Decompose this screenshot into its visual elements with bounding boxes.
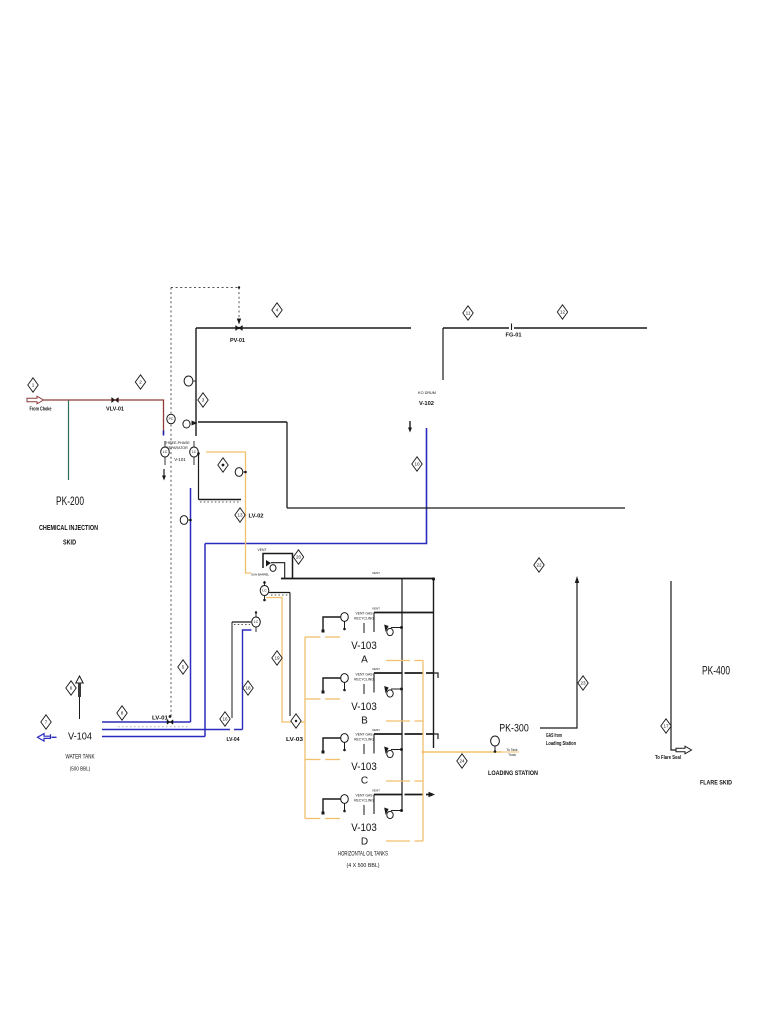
tank V-103 A vent line [374, 612, 434, 614]
tank D left gauge assembly [322, 795, 349, 815]
flag 23 [578, 676, 588, 690]
signal line (dashed) vertical left to PC [170, 288, 172, 414]
instrument bubble to orange [235, 468, 247, 477]
tank C left gauge assembly [322, 734, 349, 754]
svg-text:11: 11 [466, 311, 471, 316]
tank vent riser mid [401, 579, 403, 811]
svg-text:8: 8 [121, 711, 124, 716]
svg-text:VENT GAS: VENT GAS [355, 733, 373, 737]
tank D left orange dashes [305, 818, 321, 820]
off-page connector From Choke arrow [27, 396, 44, 404]
chemical injection line (green) [68, 401, 70, 480]
signal LC to LV-03 (hatched) [269, 593, 290, 717]
svg-text:PK-200: PK-200 [56, 494, 84, 508]
oil outlet horizontal (hatched) [199, 500, 242, 503]
instrument bubble LC gun barrel [260, 581, 269, 601]
instrument bubble to water line [180, 516, 192, 525]
svg-text:V-104: V-104 [68, 731, 92, 743]
tank A dip tube tick [363, 623, 365, 633]
svg-text:WATER TANK: WATER TANK [66, 755, 95, 761]
fuel gas line right segment [514, 327, 647, 329]
svg-text:LV-03: LV-03 [286, 737, 303, 743]
tank outlet manifold (orange) [422, 661, 424, 842]
blue riser from LC (line2) [243, 630, 252, 730]
condensate line V-102 (blue) [205, 428, 427, 544]
svg-text:A: A [361, 655, 368, 666]
orange control to LV-03 [266, 598, 291, 723]
svg-text:PK-300: PK-300 [499, 723, 529, 735]
flag 2 [135, 375, 145, 389]
svg-text:Truck: Truck [508, 753, 516, 757]
flag 19 [272, 651, 282, 665]
tank B pump glyph [384, 686, 403, 697]
svg-text:VENT GAS: VENT GAS [355, 612, 373, 616]
gas line from separator top [196, 327, 411, 329]
svg-text:V-103: V-103 [351, 761, 377, 773]
flag 20 [293, 550, 303, 564]
svg-text:From Choke: From Choke [30, 407, 52, 413]
svg-text:RECYCLING: RECYCLING [354, 799, 374, 803]
svg-text:SKID: SKID [63, 538, 76, 547]
faded orange continuation [502, 751, 519, 753]
svg-text:RECYCLING: RECYCLING [354, 617, 374, 621]
svg-text:(500 BBL): (500 BBL) [70, 767, 91, 773]
separator drain arrow [162, 469, 166, 481]
oil outlet drop [198, 452, 200, 500]
tank C right orange dashes [386, 780, 410, 782]
gas outlet drop [286, 422, 288, 508]
svg-text:V-102: V-102 [419, 401, 434, 407]
svg-text:1: 1 [32, 383, 35, 388]
svg-text:VENT: VENT [372, 607, 380, 611]
flag 18 [243, 681, 253, 695]
instrument bubble PC on dashed line [167, 414, 175, 424]
separator inlet line [198, 421, 287, 423]
gun barrel body [263, 554, 293, 579]
valve flag LV-04 [220, 712, 230, 726]
line end marker (blue tick) [163, 431, 165, 436]
tank B left orange dashes [305, 698, 321, 700]
svg-text:LV-02: LV-02 [249, 514, 264, 520]
svg-text:THREE-PHASE: THREE-PHASE [164, 441, 190, 445]
gun barrel internal circle [270, 565, 276, 572]
svg-text:2: 2 [139, 380, 142, 385]
instrument bubble loading [491, 736, 500, 753]
svg-text:7: 7 [45, 720, 48, 725]
drop to V-102 [442, 328, 444, 380]
gas return line [540, 581, 577, 728]
orange control line top [206, 452, 251, 573]
valve flag LV-02 [235, 508, 245, 522]
signal to LV-04 [231, 622, 233, 718]
svg-text:PV-01: PV-01 [230, 338, 245, 344]
tank C left orange dashes [305, 759, 321, 761]
svg-text:VENT: VENT [372, 789, 380, 793]
svg-text:20: 20 [296, 555, 302, 560]
svg-text:13: 13 [237, 513, 243, 518]
instrument bubble with arrow [183, 420, 198, 428]
flag 24 [457, 754, 467, 768]
svg-text:C: C [361, 776, 368, 787]
flag bullet [218, 458, 228, 472]
flag 8 [117, 706, 127, 720]
gun barrel internal line [271, 563, 285, 579]
svg-text:VENT GAS: VENT GAS [355, 673, 373, 677]
svg-text:18: 18 [245, 686, 251, 691]
tank C pump glyph [384, 747, 403, 758]
flag 3 [198, 393, 208, 407]
oil to loading station (orange) [423, 751, 502, 753]
svg-text:RECYCLING: RECYCLING [354, 678, 374, 682]
water inlet line 1 (blue) [102, 721, 191, 723]
tank A nozzle stub [373, 613, 375, 633]
instrument bubble LC tank B [252, 611, 261, 632]
svg-text:V-103: V-103 [351, 822, 377, 834]
tank V-103 B vent line [374, 672, 402, 674]
valve VLV-01 [112, 397, 119, 402]
svg-text:SEPARATOR: SEPARATOR [166, 446, 188, 450]
tank D dip tube tick [363, 805, 365, 815]
svg-text:23: 23 [580, 681, 586, 686]
gas return arrowhead [575, 576, 579, 583]
tank V-103 C vent line [374, 733, 402, 735]
svg-text:LC: LC [254, 620, 259, 624]
svg-text:GAS from: GAS from [546, 733, 562, 739]
flag 11 [463, 306, 473, 320]
svg-text:22: 22 [536, 563, 542, 568]
instrument bubble LC left [161, 441, 170, 465]
water inlet line 3 (blue) [102, 736, 205, 738]
water outlet (blue) [190, 488, 192, 722]
svg-text:4: 4 [276, 308, 279, 313]
svg-text:PK-400: PK-400 [702, 664, 730, 678]
junction dot dashed corner [238, 286, 240, 288]
svg-text:VENT: VENT [257, 548, 266, 552]
gas header to flare [287, 507, 625, 509]
valve LV-01 [167, 720, 173, 725]
svg-text:To Flare Seal: To Flare Seal [655, 755, 682, 761]
instrument FG-01 tick [511, 324, 513, 331]
svg-text:To Tank: To Tank [507, 748, 518, 752]
svg-text:LV-01: LV-01 [152, 716, 168, 722]
flag 10 [412, 457, 422, 471]
svg-text:12: 12 [560, 310, 566, 315]
tank B dip tube tick [363, 684, 365, 694]
svg-text:3: 3 [202, 398, 205, 403]
svg-text:17: 17 [663, 724, 669, 729]
orange into tank manifold [301, 721, 305, 723]
svg-text:LC: LC [163, 450, 168, 454]
svg-text:HORIZONTAL OIL TANKS: HORIZONTAL OIL TANKS [338, 851, 388, 858]
svg-text:FLARE SKID: FLARE SKID [700, 780, 732, 787]
svg-text:V-103: V-103 [351, 640, 377, 652]
crossing jog [434, 673, 439, 678]
tank C nozzle stub [373, 734, 375, 754]
actuator arrow into PV-01 [237, 319, 241, 325]
svg-text:6: 6 [70, 686, 73, 691]
tank B right orange dashes [386, 720, 410, 722]
svg-text:VENT: VENT [372, 667, 380, 671]
tank V-103 D vent line [374, 794, 402, 796]
signal dashed PC down to LV-01 [170, 425, 172, 717]
valve PV-01 [236, 325, 243, 330]
riser from separator [195, 328, 197, 436]
svg-text:(4 X 500 BBL): (4 X 500 BBL) [347, 863, 380, 869]
svg-text:LC: LC [192, 450, 197, 454]
flag 6 [66, 681, 76, 695]
hatched line to LC [232, 622, 251, 625]
pipe from choke (red) [44, 400, 164, 432]
crossing jog [434, 734, 439, 739]
svg-text:KO DRUM: KO DRUM [418, 391, 436, 395]
tank B left gauge assembly [322, 674, 349, 694]
water inlet line 2 (blue) [102, 727, 243, 730]
svg-text:LOADING STATION: LOADING STATION [488, 770, 538, 777]
flag 1 [28, 378, 38, 392]
tank D nozzle stub [373, 795, 375, 815]
svg-text:D: D [361, 837, 368, 848]
instrument bubble LC right [190, 441, 199, 465]
svg-text:V-103: V-103 [351, 701, 377, 713]
svg-text:RECYCLING: RECYCLING [354, 738, 374, 742]
condensate drop to tank (blue) [204, 544, 206, 737]
valve flag LV-03 [291, 714, 301, 728]
svg-text:19: 19 [274, 656, 280, 661]
tank A pump glyph [384, 625, 403, 636]
svg-text:24: 24 [459, 759, 465, 764]
tank inlet riser right [433, 579, 435, 749]
tank D right orange dashes [386, 840, 410, 842]
flag 5 [178, 660, 188, 674]
flag 4 [272, 303, 282, 317]
svg-text:LV-04: LV-04 [227, 737, 240, 743]
flare line [671, 581, 676, 750]
oil rundown header [281, 578, 434, 580]
vent stack arrow [76, 676, 83, 719]
signal line (dashed) vertical right to PV-01 [238, 288, 240, 320]
svg-text:B: B [361, 716, 368, 727]
svg-text:VLV-01: VLV-01 [106, 406, 124, 412]
svg-text:16: 16 [222, 717, 228, 722]
svg-text:VENT: VENT [372, 728, 380, 732]
off-page connector To Flare Seal [676, 746, 692, 754]
svg-text:V-101: V-101 [174, 457, 186, 462]
tank C dip tube tick [363, 744, 365, 754]
off-page connector water out (blue arrow) [38, 734, 57, 742]
svg-text:LC: LC [262, 589, 267, 593]
svg-text:CHEMICAL INJECTION: CHEMICAL INJECTION [39, 523, 98, 532]
tank B nozzle stub [373, 673, 375, 693]
flag 7 [41, 715, 51, 729]
tank A right orange dashes [386, 660, 410, 662]
V-102 drain arrow [408, 421, 412, 433]
svg-text:FG-01: FG-01 [506, 333, 522, 339]
tank D pump glyph [384, 808, 403, 819]
flag 17 [661, 719, 671, 733]
svg-text:10: 10 [414, 462, 420, 467]
svg-text:Loading Station: Loading Station [546, 741, 576, 747]
flag 12 [557, 305, 567, 319]
gun barrel internal arrow [266, 560, 271, 567]
instrument bubble PI [184, 376, 196, 386]
signal line (dashed) horizontal top [171, 287, 239, 289]
tank A left orange dashes [305, 636, 321, 638]
svg-text:VENT: VENT [372, 571, 380, 575]
fuel gas line left segment [443, 327, 509, 329]
svg-text:GUN BARREL: GUN BARREL [251, 573, 269, 577]
tank inlet manifold (orange) [304, 637, 306, 819]
svg-text:VENT GAS: VENT GAS [355, 794, 373, 798]
flag 22 [534, 558, 544, 572]
svg-text:5: 5 [182, 665, 185, 670]
tank A left gauge assembly [322, 613, 349, 633]
svg-text:PC: PC [169, 417, 174, 421]
